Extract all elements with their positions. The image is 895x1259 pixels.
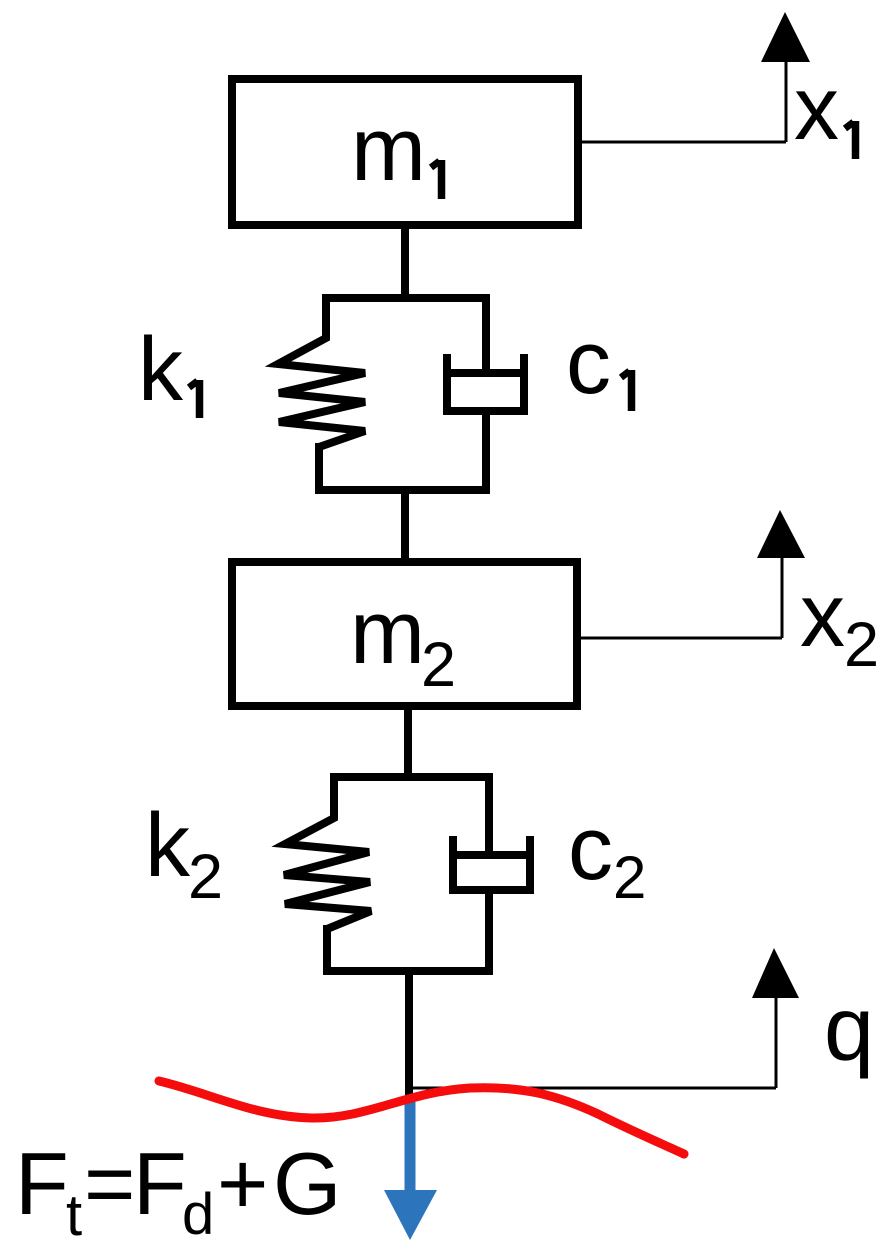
svg-text:2: 2 (613, 844, 646, 911)
svg-text:2: 2 (188, 842, 223, 912)
svg-text:c: c (566, 313, 611, 413)
svg-text:k: k (138, 320, 184, 420)
svg-text:k: k (145, 796, 191, 896)
svg-text:x: x (794, 59, 839, 159)
svg-text:G: G (273, 1134, 341, 1233)
svg-text:m: m (351, 100, 426, 200)
svg-text:=: = (84, 1134, 135, 1233)
svg-text:t: t (66, 1183, 82, 1248)
svg-text:F: F (15, 1134, 69, 1233)
svg-text:c: c (568, 799, 613, 899)
svg-text:x: x (800, 566, 845, 666)
svg-text:d: d (182, 1182, 214, 1247)
svg-text:q: q (824, 980, 874, 1080)
svg-text:m: m (350, 583, 425, 683)
svg-text:2: 2 (844, 610, 879, 680)
svg-text:+: + (217, 1134, 268, 1233)
svg-text:2: 2 (421, 630, 456, 700)
svg-text:F: F (133, 1134, 187, 1233)
